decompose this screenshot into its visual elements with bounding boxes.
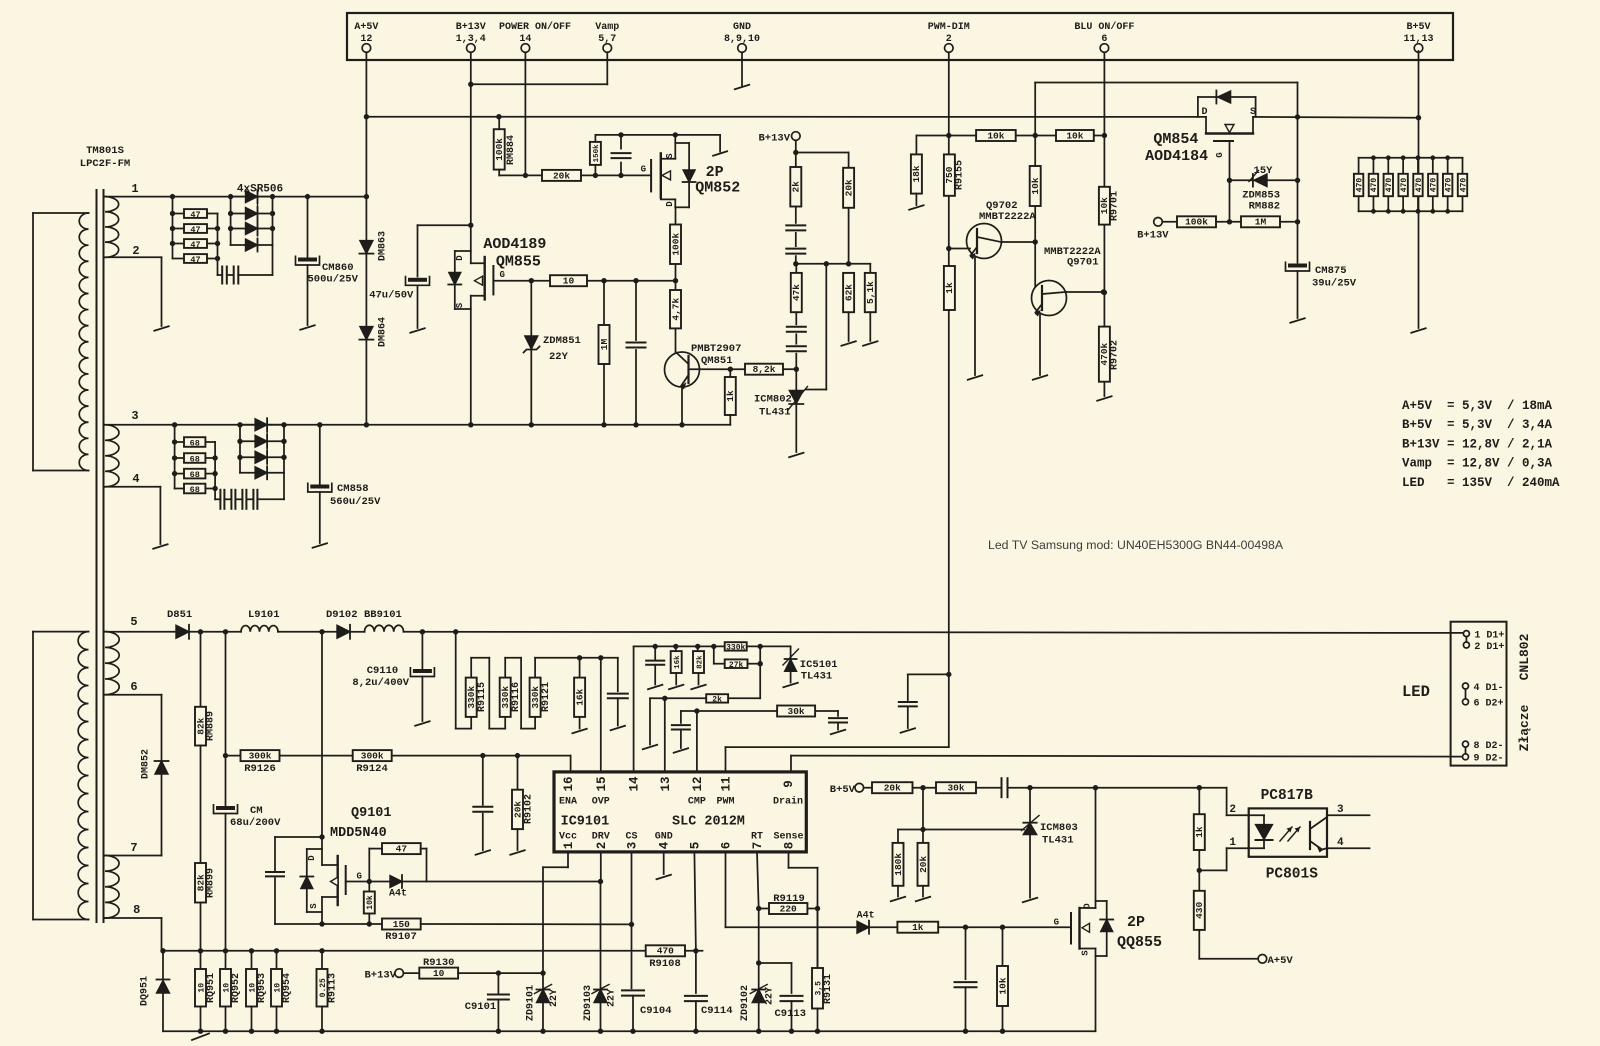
- svg-text:470: 470: [1400, 178, 1409, 193]
- svg-text:D: D: [307, 855, 317, 861]
- svg-text:2 D1+: 2 D1+: [1474, 642, 1504, 653]
- svg-text:1: 1: [562, 842, 576, 850]
- svg-text:4: 4: [1337, 837, 1344, 849]
- svg-text:8: 8: [133, 903, 140, 917]
- svg-text:1 D1+: 1 D1+: [1474, 630, 1504, 641]
- svg-text:150: 150: [393, 919, 410, 930]
- svg-text:9 D2-: 9 D2-: [1474, 754, 1504, 765]
- svg-text:47k: 47k: [791, 284, 802, 301]
- svg-text:G: G: [1215, 152, 1225, 157]
- svg-text:GND: GND: [733, 22, 751, 33]
- svg-text:10k: 10k: [1030, 177, 1041, 194]
- svg-text:B+5V = 5,3V / 3,4A: B+5V = 5,3V / 3,4A: [1402, 418, 1553, 432]
- svg-text:9: 9: [782, 780, 796, 788]
- svg-text:R9155: R9155: [955, 160, 966, 190]
- svg-text:R9115: R9115: [477, 682, 488, 712]
- svg-text:G: G: [500, 270, 505, 280]
- svg-text:10: 10: [563, 276, 575, 287]
- svg-text:D: D: [665, 201, 675, 207]
- svg-text:15Y: 15Y: [1254, 165, 1274, 177]
- svg-text:RQ953: RQ953: [257, 973, 268, 1003]
- svg-text:Q9101: Q9101: [351, 806, 392, 821]
- svg-text:D: D: [1083, 903, 1093, 909]
- svg-text:PWM-DIM: PWM-DIM: [928, 22, 970, 33]
- svg-text:1k: 1k: [912, 922, 924, 933]
- svg-text:47: 47: [190, 210, 200, 220]
- svg-text:RT: RT: [751, 832, 763, 843]
- svg-text:2: 2: [1229, 804, 1236, 816]
- svg-text:20k: 20k: [553, 170, 570, 181]
- svg-text:ZD9103: ZD9103: [583, 985, 594, 1021]
- svg-text:PMBT2907: PMBT2907: [691, 343, 741, 355]
- svg-text:1: 1: [1229, 837, 1236, 849]
- svg-text:SLC 2012M: SLC 2012M: [672, 815, 745, 830]
- svg-text:10: 10: [273, 983, 282, 993]
- svg-text:4xSR506: 4xSR506: [237, 184, 283, 196]
- svg-text:470: 470: [1355, 178, 1364, 193]
- svg-text:12: 12: [360, 34, 372, 45]
- svg-text:20k: 20k: [843, 179, 854, 196]
- svg-text:330k: 330k: [726, 643, 745, 652]
- svg-text:3,5: 3,5: [814, 981, 823, 996]
- svg-text:12: 12: [691, 776, 705, 791]
- svg-text:1,3,4: 1,3,4: [456, 34, 486, 45]
- svg-text:1k: 1k: [944, 282, 955, 294]
- svg-text:10: 10: [222, 983, 231, 993]
- svg-text:470: 470: [657, 946, 674, 957]
- svg-text:5: 5: [130, 615, 137, 629]
- svg-text:11: 11: [720, 776, 734, 791]
- svg-text:DRV: DRV: [592, 832, 610, 843]
- svg-text:S: S: [665, 153, 675, 159]
- svg-text:DM863: DM863: [378, 231, 389, 261]
- svg-text:CM: CM: [250, 805, 263, 817]
- svg-text:3: 3: [626, 842, 640, 850]
- svg-text:47: 47: [190, 225, 200, 235]
- svg-text:22Y: 22Y: [549, 989, 560, 1007]
- svg-text:2P: 2P: [706, 164, 724, 181]
- svg-text:ENA: ENA: [559, 797, 577, 808]
- svg-text:IC5101: IC5101: [800, 659, 838, 671]
- svg-text:8 D2-: 8 D2-: [1474, 741, 1504, 752]
- svg-text:470: 470: [1459, 178, 1468, 193]
- svg-text:A4t: A4t: [389, 889, 407, 900]
- svg-text:4,7k: 4,7k: [670, 298, 681, 321]
- svg-text:D9102: D9102: [326, 609, 358, 621]
- svg-text:39u/25V: 39u/25V: [1312, 278, 1357, 290]
- svg-text:330k: 330k: [466, 686, 477, 709]
- svg-text:RM899: RM899: [206, 868, 217, 898]
- svg-text:4: 4: [132, 472, 139, 486]
- svg-text:100k: 100k: [670, 233, 681, 256]
- svg-text:2P: 2P: [1127, 914, 1145, 931]
- svg-text:QQ855: QQ855: [1117, 934, 1162, 951]
- svg-text:82k: 82k: [696, 655, 704, 669]
- svg-text:470: 470: [1370, 178, 1379, 193]
- svg-text:Złącze: Złącze: [1517, 704, 1532, 751]
- svg-text:A+5V: A+5V: [354, 22, 378, 33]
- svg-text:2: 2: [595, 842, 609, 850]
- svg-text:TM801S: TM801S: [86, 145, 124, 157]
- svg-text:15: 15: [595, 776, 609, 791]
- svg-text:300k: 300k: [249, 751, 272, 762]
- svg-text:5,7: 5,7: [598, 34, 616, 45]
- svg-text:1k: 1k: [725, 390, 736, 402]
- svg-text:2: 2: [132, 244, 139, 258]
- svg-text:300k: 300k: [361, 751, 384, 762]
- svg-text:RM884: RM884: [506, 135, 517, 165]
- svg-text:330k: 330k: [500, 686, 511, 709]
- svg-text:14: 14: [628, 776, 642, 792]
- svg-text:R9121: R9121: [541, 682, 552, 712]
- svg-text:20k: 20k: [884, 783, 901, 794]
- svg-text:1k: 1k: [1194, 826, 1205, 838]
- svg-text:OVP: OVP: [592, 797, 610, 808]
- svg-text:PC801S: PC801S: [1266, 867, 1319, 883]
- svg-text:180k: 180k: [893, 853, 904, 876]
- svg-text:RQ951: RQ951: [206, 973, 217, 1003]
- svg-text:BB9101: BB9101: [364, 609, 402, 621]
- svg-text:TL431: TL431: [759, 407, 791, 419]
- svg-text:ZDM851: ZDM851: [543, 335, 581, 347]
- svg-text:20k: 20k: [918, 856, 929, 873]
- svg-text:330k: 330k: [530, 686, 541, 709]
- svg-text:100k: 100k: [1185, 217, 1208, 228]
- svg-text:GND: GND: [655, 832, 673, 843]
- svg-text:C9101: C9101: [465, 1001, 497, 1013]
- svg-text:2k: 2k: [712, 695, 722, 704]
- svg-text:R9107: R9107: [385, 931, 417, 943]
- svg-text:D851: D851: [167, 609, 192, 621]
- svg-text:10: 10: [433, 968, 445, 979]
- svg-text:B+5V: B+5V: [830, 784, 856, 796]
- svg-text:C9114: C9114: [701, 1005, 733, 1017]
- svg-text:Q9701: Q9701: [1067, 257, 1099, 269]
- svg-text:QM854: QM854: [1153, 131, 1198, 148]
- svg-text:11,13: 11,13: [1403, 34, 1433, 45]
- svg-text:68u/200V: 68u/200V: [230, 817, 281, 829]
- svg-text:S: S: [1081, 950, 1091, 956]
- svg-text:2: 2: [946, 34, 952, 45]
- svg-text:B+13V: B+13V: [758, 133, 790, 145]
- svg-text:B+13V = 12,8V / 2,1A: B+13V = 12,8V / 2,1A: [1402, 437, 1553, 451]
- svg-text:CMP: CMP: [688, 797, 706, 808]
- svg-text:68: 68: [190, 454, 200, 464]
- svg-text:3: 3: [131, 409, 138, 423]
- svg-text:R9126: R9126: [244, 763, 276, 775]
- svg-text:C9104: C9104: [640, 1005, 672, 1017]
- svg-text:8,2k: 8,2k: [753, 364, 776, 375]
- svg-text:68: 68: [190, 438, 200, 448]
- svg-text:47: 47: [396, 844, 408, 855]
- svg-text:500u/25V: 500u/25V: [308, 274, 359, 286]
- svg-text:A+5V: A+5V: [1268, 955, 1294, 967]
- svg-text:6: 6: [130, 680, 137, 694]
- svg-text:B+13V: B+13V: [1137, 230, 1169, 242]
- svg-text:47u/50V: 47u/50V: [369, 290, 414, 302]
- svg-text:4 D1-: 4 D1-: [1474, 683, 1504, 694]
- svg-text:68: 68: [190, 470, 200, 480]
- svg-text:TL431: TL431: [1042, 835, 1074, 847]
- svg-text:A4t: A4t: [857, 911, 875, 922]
- svg-text:ICM802: ICM802: [754, 394, 792, 406]
- svg-text:ICM803: ICM803: [1040, 822, 1078, 834]
- svg-text:R9124: R9124: [356, 763, 388, 775]
- svg-text:C9113: C9113: [775, 1008, 807, 1020]
- svg-text:Vcc: Vcc: [559, 832, 577, 843]
- svg-text:10k: 10k: [366, 895, 375, 910]
- svg-text:8,9,10: 8,9,10: [724, 34, 760, 45]
- svg-text:10k: 10k: [987, 130, 1004, 141]
- svg-text:30k: 30k: [947, 783, 964, 794]
- svg-text:IC9101: IC9101: [561, 815, 610, 830]
- svg-text:Drain: Drain: [773, 796, 803, 808]
- svg-text:470: 470: [1415, 178, 1424, 193]
- svg-text:CM860: CM860: [322, 262, 354, 274]
- svg-text:20k: 20k: [512, 801, 523, 818]
- svg-text:0.25: 0.25: [319, 978, 328, 997]
- svg-text:30k: 30k: [788, 706, 805, 717]
- svg-text:16k: 16k: [674, 655, 682, 669]
- svg-text:7: 7: [130, 841, 137, 855]
- svg-text:470: 470: [1444, 178, 1453, 193]
- svg-text:G: G: [1054, 918, 1059, 928]
- svg-text:16: 16: [562, 776, 576, 791]
- svg-text:CM858: CM858: [337, 483, 369, 495]
- svg-text:R9702: R9702: [1110, 340, 1121, 370]
- svg-text:LPC2F-FM: LPC2F-FM: [80, 158, 130, 170]
- svg-text:ZD9102: ZD9102: [740, 985, 751, 1021]
- svg-text:1: 1: [131, 182, 138, 196]
- svg-text:8: 8: [783, 842, 797, 850]
- svg-text:DQ951: DQ951: [140, 976, 151, 1006]
- svg-text:S: S: [455, 302, 465, 308]
- svg-text:560u/25V: 560u/25V: [330, 496, 381, 508]
- svg-text:G: G: [357, 872, 362, 882]
- svg-text:POWER ON/OFF: POWER ON/OFF: [499, 21, 571, 33]
- svg-text:RM882: RM882: [1249, 201, 1281, 213]
- svg-text:ZD9101: ZD9101: [526, 985, 537, 1021]
- svg-text:10k: 10k: [997, 977, 1008, 994]
- svg-text:CM875: CM875: [1315, 265, 1347, 277]
- svg-text:6: 6: [720, 842, 734, 850]
- svg-text:B+13V: B+13V: [456, 22, 486, 33]
- svg-text:8,2u/400V: 8,2u/400V: [352, 677, 409, 689]
- svg-text:G: G: [641, 165, 646, 175]
- svg-text:BLU ON/OFF: BLU ON/OFF: [1074, 21, 1134, 33]
- svg-text:DM864: DM864: [378, 317, 389, 347]
- svg-text:7: 7: [751, 842, 765, 850]
- svg-text:10k: 10k: [1066, 130, 1083, 141]
- svg-text:MMBT2222A: MMBT2222A: [979, 211, 1036, 223]
- svg-text:QM851: QM851: [701, 355, 733, 367]
- svg-text:A+5V = 5,3V / 18mA: A+5V = 5,3V / 18mA: [1402, 399, 1553, 413]
- svg-text:68: 68: [190, 485, 200, 495]
- svg-text:R9113: R9113: [328, 973, 339, 1003]
- svg-text:AOD4184: AOD4184: [1145, 148, 1208, 165]
- svg-text:CNL802: CNL802: [1517, 633, 1532, 680]
- svg-text:100k: 100k: [494, 138, 505, 161]
- svg-text:PWM: PWM: [716, 797, 734, 808]
- svg-text:62k: 62k: [843, 284, 854, 301]
- svg-text:S: S: [309, 903, 319, 909]
- svg-text:RQ952: RQ952: [231, 973, 242, 1003]
- svg-text:13: 13: [659, 776, 673, 791]
- svg-text:10: 10: [197, 983, 206, 993]
- svg-text:22Y: 22Y: [607, 989, 618, 1007]
- svg-text:5,1k: 5,1k: [865, 281, 876, 304]
- svg-text:AOD4189: AOD4189: [483, 236, 546, 253]
- svg-text:150k: 150k: [593, 144, 601, 163]
- svg-text:470: 470: [1430, 178, 1439, 193]
- svg-text:D: D: [455, 255, 465, 261]
- svg-text:Sense: Sense: [773, 832, 803, 843]
- svg-text:220: 220: [780, 903, 797, 914]
- svg-text:QM855: QM855: [496, 254, 541, 271]
- svg-text:14: 14: [519, 34, 531, 45]
- svg-text:L9101: L9101: [248, 609, 280, 621]
- svg-text:1M: 1M: [1255, 217, 1267, 228]
- svg-text:Vamp = 12,8V / 0,3A: Vamp = 12,8V / 0,3A: [1402, 457, 1553, 471]
- svg-text:22Y: 22Y: [549, 351, 569, 363]
- svg-text:DM852: DM852: [141, 749, 152, 779]
- svg-text:47: 47: [190, 255, 200, 265]
- svg-text:Led TV Samsung mod: UN40EH5300: Led TV Samsung mod: UN40EH5300G BN44-004…: [988, 538, 1284, 552]
- svg-text:6: 6: [1101, 34, 1107, 45]
- svg-text:R9131: R9131: [823, 974, 834, 1004]
- svg-text:LED: LED: [1402, 683, 1430, 701]
- svg-text:5: 5: [688, 842, 702, 850]
- svg-text:R9102: R9102: [524, 794, 535, 824]
- svg-text:16k: 16k: [574, 688, 585, 705]
- svg-text:R9701: R9701: [1110, 191, 1121, 221]
- svg-text:C9110: C9110: [367, 665, 399, 677]
- svg-text:TL431: TL431: [801, 671, 833, 683]
- svg-text:Vamp: Vamp: [595, 22, 619, 33]
- svg-text:3: 3: [1337, 804, 1344, 816]
- svg-text:10: 10: [248, 983, 257, 993]
- svg-text:QM852: QM852: [695, 180, 740, 197]
- svg-text:RQ954: RQ954: [282, 973, 293, 1003]
- svg-text:R9108: R9108: [649, 958, 681, 970]
- svg-text:RM889: RM889: [206, 711, 217, 741]
- svg-text:27k: 27k: [729, 661, 744, 670]
- svg-text:47: 47: [190, 240, 200, 250]
- svg-text:B+13V: B+13V: [364, 970, 396, 982]
- svg-text:470: 470: [1385, 178, 1394, 193]
- svg-text:MDD5N40: MDD5N40: [330, 826, 387, 841]
- svg-text:LED = 135V / 240mA: LED = 135V / 240mA: [1402, 476, 1560, 490]
- svg-text:B+5V: B+5V: [1406, 22, 1430, 33]
- svg-text:22Y: 22Y: [765, 987, 776, 1005]
- svg-text:PC817B: PC817B: [1261, 788, 1314, 804]
- svg-text:18k: 18k: [911, 165, 922, 182]
- svg-text:430: 430: [1194, 902, 1205, 919]
- svg-text:2k: 2k: [791, 181, 802, 193]
- svg-text:6 D2+: 6 D2+: [1474, 699, 1504, 710]
- svg-text:CS: CS: [625, 832, 637, 843]
- svg-text:1M: 1M: [599, 339, 610, 351]
